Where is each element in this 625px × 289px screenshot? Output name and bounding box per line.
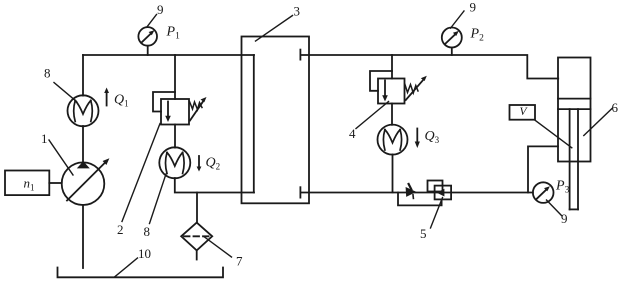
velocity sensor V <box>510 105 572 148</box>
test block 3 <box>242 37 310 204</box>
label 10 <box>115 246 152 277</box>
label 5 <box>420 198 443 242</box>
svg-text:V: V <box>520 106 529 118</box>
wire meter to pump <box>82 126 84 162</box>
wire top-left rail <box>83 54 254 56</box>
svg-text:9: 9 <box>561 211 568 226</box>
motor n1 <box>5 171 49 196</box>
wire flow meter Q3 down <box>392 154 394 192</box>
label 4 <box>349 102 389 142</box>
flow meter 8 (Q1) <box>68 95 99 126</box>
svg-text:9: 9 <box>157 2 164 17</box>
relief valve 4 <box>370 71 427 104</box>
flow meter (Q3) <box>378 125 408 155</box>
svg-text:P1: P1 <box>166 25 181 42</box>
pump 1 <box>62 158 110 205</box>
wire bypass loop under valve 5 <box>398 193 442 206</box>
flow meter 8 (Q2) <box>159 147 190 178</box>
flow direction arrow <box>406 184 417 198</box>
label 2 <box>117 124 160 238</box>
wire left vertical to flow meter <box>82 55 84 96</box>
wire valve4 to flow meter Q3 <box>391 104 393 125</box>
svg-text:10: 10 <box>138 246 151 261</box>
svg-text:P2: P2 <box>470 27 485 44</box>
wire cylinder bottom port <box>528 146 558 192</box>
cylinder 6 <box>558 58 591 210</box>
wire flow meter Q2 down and bottom-left rail <box>175 178 254 193</box>
arrow Q1 <box>104 88 109 106</box>
svg-text:P3: P3 <box>555 179 570 196</box>
wire valve2 to flow meter Q2 <box>174 125 176 148</box>
svg-text:4: 4 <box>349 126 356 141</box>
check valve 5 <box>428 181 452 200</box>
wire motor to pump <box>49 182 61 184</box>
tank 10 <box>58 268 224 278</box>
svg-text:2: 2 <box>117 222 124 237</box>
wire relief valve 2 supply <box>174 55 176 99</box>
svg-text:Q3: Q3 <box>425 129 440 145</box>
svg-text:Q2: Q2 <box>206 156 221 172</box>
arrow Q2 <box>197 156 202 172</box>
label 9 (P3) <box>547 200 568 226</box>
svg-text:7: 7 <box>236 254 243 269</box>
gauge 9 (P2) <box>442 28 462 56</box>
wire pump to tank <box>82 205 84 268</box>
label 9 (P2) <box>451 0 477 28</box>
svg-text:3: 3 <box>294 4 301 19</box>
arrow Q3 <box>415 129 420 149</box>
label 6 <box>584 100 619 136</box>
svg-text:5: 5 <box>420 226 427 241</box>
svg-text:8: 8 <box>44 66 51 81</box>
svg-text:1: 1 <box>41 131 48 146</box>
filter 7 <box>181 223 212 260</box>
gauge 9 (P1) <box>138 27 157 55</box>
wire filter stem <box>196 193 198 223</box>
label 8 (Q2 meter) <box>144 174 167 239</box>
label 7 <box>205 237 244 269</box>
svg-text:Q1: Q1 <box>114 93 129 109</box>
svg-text:8: 8 <box>144 224 151 239</box>
wire relief valve 4 supply <box>391 55 393 79</box>
label 9 (P1) <box>147 2 164 27</box>
wire bottom-right rail <box>300 192 533 194</box>
relief valve 2 <box>153 92 207 125</box>
svg-text:n1: n1 <box>24 176 35 193</box>
label 8 (Q1 meter) <box>44 66 77 102</box>
label 1 <box>41 131 73 175</box>
label 3 <box>256 4 301 42</box>
gauge 9 (P3) <box>533 182 554 203</box>
wire top-right rail <box>300 55 558 79</box>
svg-text:9: 9 <box>470 0 477 15</box>
svg-text:6: 6 <box>612 100 619 115</box>
